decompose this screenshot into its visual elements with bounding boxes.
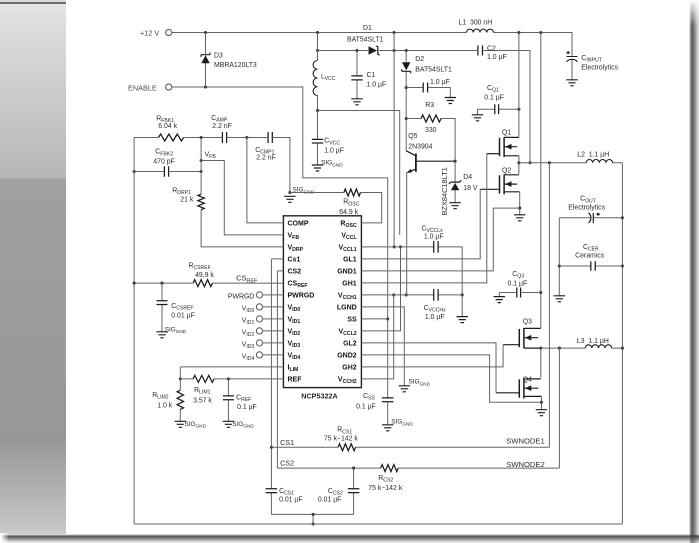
svg-text:Q5: Q5 [408,133,417,140]
svg-text:CQ1: CQ1 [487,85,499,94]
svg-text:0.1 µF: 0.1 µF [484,94,504,101]
svg-text:ROSC: ROSC [343,199,359,208]
svg-text:2.2 nF: 2.2 nF [256,155,276,162]
wire GND1 to power ground [361,208,519,271]
svg-text:RCS2: RCS2 [378,475,393,484]
svg-text:0.1 µF: 0.1 µF [356,403,376,410]
ground at output caps [554,296,565,302]
svg-text:GL2: GL2 [343,341,357,348]
svg-text:CFBK2: CFBK2 [155,149,173,158]
wire CS2 riser [277,271,283,468]
svg-text:49.9 k: 49.9 k [195,272,214,279]
wire SWNODE1 tap down to RCS1 [548,163,550,448]
resistor RLIM2 1.0k [179,379,181,421]
svg-text:R3: R3 [425,102,434,109]
svg-text:CCER: CCER [583,244,599,253]
svg-text:BAT54SLT1: BAT54SLT1 [347,36,384,43]
svg-text:D4: D4 [463,174,472,181]
wire COMP drop [247,138,284,223]
svg-text:18 V: 18 V [463,185,478,192]
wire output cap ground drop [558,218,560,296]
svg-text:SIGGND: SIGGND [293,187,315,196]
svg-text:PWRGD: PWRGD [288,293,315,300]
transistor Q3 MOSFET [518,329,520,347]
svg-text:VID4: VID4 [242,354,255,363]
svg-text:LGND: LGND [337,305,357,312]
svg-text:0.01 µF: 0.01 µF [171,313,195,320]
diode D2 BAT54SLT1 [405,51,407,151]
svg-text:SIGGND: SIGGND [165,326,187,335]
ground SIGGND at CCMP1/ROSC [284,196,295,202]
wire boost rail 12V to VCCL1 [393,33,395,247]
svg-text:CVCC: CVCC [324,138,340,147]
wire GH1 to Q1 gate [361,154,486,283]
svg-text:CS2: CS2 [288,269,302,276]
capacitor CAMP 2.2nF [201,137,247,139]
svg-text:2N3904: 2N3904 [408,143,432,150]
svg-text:RCSREF: RCSREF [189,263,211,272]
wire SS row [361,318,387,320]
svg-text:SIGGND: SIGGND [409,379,431,388]
svg-text:RLIM1: RLIM1 [194,387,210,396]
svg-text:SIGGND: SIGGND [232,421,254,430]
ground at CVCCx caps [457,317,468,323]
svg-text:CSS: CSS [363,393,375,402]
svg-text:SIGGND: SIGGND [321,160,343,169]
resistor RDRP1 21k [201,138,283,247]
svg-text:PWRGD: PWRGD [228,294,254,301]
svg-text:VID3: VID3 [242,342,255,351]
svg-text:0.1 µF: 0.1 µF [508,281,528,288]
transistor Q1 MOSFET [499,138,501,156]
svg-text:1.0 k: 1.0 k [157,402,172,409]
transistor Q2 MOSFET [499,175,501,193]
svg-text:L1 300 nH: L1 300 nH [459,20,493,27]
svg-text:SIGGND: SIGGND [185,421,207,430]
node VID4 terminal [263,354,284,356]
capacitor CVCCLx 1.0uF on VCCL1 row [361,247,462,316]
diode D1 BAT54SLT1 [369,46,377,54]
svg-text:VID1: VID1 [242,318,255,327]
capacitor C1 1.0uF [356,51,358,99]
svg-text:GH2: GH2 [342,365,357,372]
capacitor CQ1 0.1uF [478,109,519,114]
inductor LVCC [317,33,319,111]
svg-text:LVCC: LVCC [321,73,336,82]
capacitor 1.0uF at Q5 collector [406,88,450,98]
diode D4 zener BZX84C18LT1 18V [454,161,456,202]
svg-text:Q4: Q4 [523,376,532,383]
svg-text:1.0 µF: 1.0 µF [367,81,387,88]
svg-text:CREF: CREF [236,394,251,403]
ground SIGGND at CSS [382,425,393,431]
wire CS2 row with RCS2 [277,467,559,469]
wire ILIM [180,367,283,379]
wire left feedback rail [133,138,135,525]
svg-text:CCS1: CCS1 [279,488,294,497]
capacitor CCMP1 2.2nF [247,138,290,193]
svg-text:330: 330 [425,127,437,134]
capacitor CREF 0.1uF [227,379,229,421]
capacitor COUT electrolytics [559,217,622,219]
svg-text:L3 1.1 µH: L3 1.1 µH [577,338,609,345]
svg-text:GND1: GND1 [337,269,357,276]
svg-text:VID2: VID2 [242,330,255,339]
resistor ROSC 64.9k [290,193,382,223]
wire VOUT rail [621,163,623,524]
node VID2 terminal [263,330,284,332]
svg-text:SIGGND: SIGGND [391,419,413,428]
svg-text:COUT: COUT [580,196,596,205]
wire CS1 riser [271,259,283,489]
svg-text:RDRP1: RDRP1 [172,188,191,197]
diode D3 MBRA120LT3 [205,33,207,88]
svg-text:D3: D3 [214,53,223,60]
wire +12V top rail [172,33,572,57]
svg-text:BZX84C18LT1: BZX84C18LT1 [440,167,449,215]
resistor RLIM1 3.57k [180,378,283,380]
svg-text:D1: D1 [363,25,372,32]
svg-text:0.1 µF: 0.1 µF [237,404,257,411]
svg-text:CCSREF: CCSREF [171,303,193,312]
svg-text:0.01 µF: 0.01 µF [279,497,303,504]
capacitor C2 1.0uF [478,46,483,56]
transistor Q4 MOSFET [518,379,520,397]
ground SIGGND at CVCC [312,165,323,171]
svg-text:L2 1.1 µH: L2 1.1 µH [577,152,609,159]
capacitor CFBK2 470pF [134,171,201,173]
svg-text:Q2: Q2 [502,168,511,175]
svg-text:Q1: Q1 [502,129,511,136]
capacitor CCS2 0.01uF [353,468,355,514]
node VID1 terminal [263,318,284,320]
svg-text:NCP5322A: NCP5322A [301,392,337,401]
ground at CQ1 [472,115,483,121]
svg-text:1.0 µF: 1.0 µF [487,54,507,61]
wire GL2 to Q4 gate [361,343,496,393]
resistor R3 330 [406,119,455,162]
node +12 V input terminal [166,29,172,35]
ground SIGGND at CREF [223,421,234,427]
svg-text:1.0 µF: 1.0 µF [430,79,450,86]
svg-text:CVCCHx: CVCCHx [424,305,446,314]
wire ENABLE net to SS [172,87,388,398]
svg-text:21 k: 21 k [180,197,194,204]
svg-text:CCS2: CCS2 [328,488,343,497]
capacitor CCSREF 0.01uF [161,283,163,331]
svg-text:BAT54SLT1: BAT54SLT1 [415,66,452,73]
svg-text:GH1: GH1 [342,281,357,288]
wire GND2 to power ground [361,355,541,402]
wire GL1 to Q2 gate [361,189,480,259]
svg-text:CS1: CS1 [280,438,294,447]
wire Q1 drain rail [518,33,520,138]
wire LVCC to VCCL riser [318,111,400,235]
wire CS1 row with RCS1 [271,446,549,448]
svg-text:CQ3: CQ3 [512,271,524,280]
wire boost/bootstrap row y50 [318,51,531,163]
svg-text:Electrolytics: Electrolytics [568,204,605,211]
svg-text:0.01 µF: 0.01 µF [318,497,342,504]
IC U1 NCP5322A body [283,216,361,388]
inductor L1 300nH [467,29,494,32]
wire Q3 source to Q4 drain [540,348,542,378]
svg-text:Ceramics: Ceramics [575,253,605,260]
capacitor CCER ceramics [559,265,622,267]
wire Q2 source to power ground [519,192,521,215]
svg-text:6.04 k: 6.04 k [158,123,177,130]
node PWRGD terminal [263,294,284,296]
svg-text:CS2: CS2 [280,458,294,467]
svg-text:CINPUT: CINPUT [581,55,602,64]
ground at collector cap [445,98,456,104]
svg-text:2.2 nF: 2.2 nF [212,123,232,130]
node ENABLE terminal [166,84,172,90]
ground SIGGND at LGND [399,386,410,392]
wire Q1 source to Q2 drain / SWNODE1 tap [518,156,520,174]
svg-text:RCS1: RCS1 [337,427,352,436]
wire VCCH jog VCCH1 to VCCH2 [361,295,393,379]
capacitor CVCCHx 1.0uF on VCCH1 row [361,294,462,296]
wire SWNODE2 row with L3 [541,347,623,349]
svg-text:SWNODE2: SWNODE2 [506,460,544,469]
ground at CQ3 [494,297,505,303]
ground at D4 [449,203,460,209]
inductor L3 1.1uH [585,345,612,348]
capacitor CVCC 1.0uF [317,111,319,165]
wire VCCL1 to VCCL2 link [361,247,400,331]
svg-text:GL1: GL1 [343,257,357,264]
wire Q4 source to power ground [540,396,542,409]
ground SIGGND at RLIM2 [175,421,186,427]
wire SWNODE1 row with L2 [519,162,623,164]
ground at C1 [351,99,362,105]
inductor L2 1.1uH [586,159,613,162]
wire caps bottom bus [271,514,353,524]
svg-text:GND2: GND2 [337,353,357,360]
svg-text:470 pF: 470 pF [153,159,174,166]
capacitor CSS 0.1uF [382,398,394,402]
capacitor CCS1 0.01uF [270,493,272,515]
svg-text:75 k−142 k: 75 k−142 k [324,435,358,442]
svg-text:COMP: COMP [288,221,309,228]
ground at Q4 source [536,410,547,416]
wire LGND to SIGGND [361,307,404,386]
svg-text:SS: SS [347,317,357,324]
svg-text:64.9 k: 64.9 k [339,209,358,216]
svg-text:1.0 µF: 1.0 µF [424,234,444,241]
node VID0 terminal [263,306,284,308]
svg-text:3.57 k: 3.57 k [193,397,212,404]
svg-text:1.0 µF: 1.0 µF [324,148,344,155]
ground at Q2 source [514,215,525,221]
svg-text:Cs1: Cs1 [288,257,301,264]
resistor RCSREF 49.9k [134,282,283,284]
svg-text:MBRA120LT3: MBRA120LT3 [214,62,257,69]
resistor RFBK1 6.04k [134,137,201,139]
svg-text:+12 V: +12 V [140,28,159,37]
svg-text:VFB: VFB [205,152,217,161]
node VFB [201,161,283,235]
svg-text:VID0: VID0 [242,306,255,315]
transistor Q5 2N3904 [415,154,417,172]
capacitor CINPUT electrolytics [566,51,577,57]
svg-text:75 k−142 k: 75 k−142 k [368,485,402,492]
svg-text:REF: REF [288,377,303,384]
svg-text:D2: D2 [415,56,424,63]
svg-text:RLIM2: RLIM2 [152,392,168,401]
svg-text:Q3: Q3 [523,318,532,325]
svg-text:Electrolytics: Electrolytics [581,64,618,71]
svg-text:C2: C2 [487,45,496,52]
wire bottom feedback bus [134,523,622,525]
svg-text:C1: C1 [367,72,376,79]
node VID3 terminal [263,342,284,344]
capacitor CQ3 0.1uF [499,293,541,297]
svg-text:SWNODE1: SWNODE1 [506,437,544,446]
svg-text:1.0 µF: 1.0 µF [425,314,445,321]
wire GH2 to Q3 gate [361,345,503,367]
ground SIGGND at CCSREF [156,332,167,338]
wire phase2 drain rail [540,33,542,328]
wire SWNODE2 tap down to RCS2 [558,348,560,468]
svg-text:ENABLE: ENABLE [128,83,157,92]
